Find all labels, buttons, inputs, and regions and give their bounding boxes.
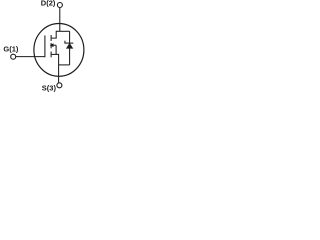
svg-text:G(1): G(1) (3, 45, 19, 54)
svg-text:D(2): D(2) (41, 0, 56, 8)
svg-text:S(3): S(3) (42, 83, 57, 92)
